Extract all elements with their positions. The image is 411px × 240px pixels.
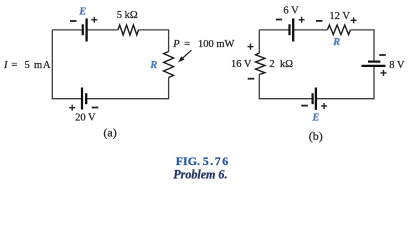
minus sign below 16V bbox=[248, 78, 255, 80]
plus sign left of 20V battery bbox=[69, 107, 75, 109]
wire: (a) top segment battery E to 5k resistor bbox=[87, 29, 118, 31]
svg-text:5 kΩ: 5 kΩ bbox=[117, 10, 138, 21]
svg-text:12 V: 12 V bbox=[329, 11, 350, 22]
battery E (a top): short negative plate bbox=[82, 24, 84, 35]
arrow from P label to resistor R bbox=[181, 50, 192, 60]
wire: (b) right wire below 8V battery, bottom wire to E battery bbox=[316, 67, 374, 99]
wire: (b) top-left segment to 6V battery bbox=[259, 29, 289, 31]
svg-text:2kΩ: 2kΩ bbox=[269, 59, 293, 70]
plus sign right of E battery (b) bbox=[321, 105, 327, 107]
wire: (a) top-left segment to battery E bbox=[52, 29, 82, 31]
svg-text:20 V: 20 V bbox=[75, 113, 96, 124]
wire: (a) top-right segment and right wire down to R bbox=[139, 30, 169, 52]
svg-text:Problem 6.: Problem 6. bbox=[173, 167, 227, 181]
svg-text:E: E bbox=[311, 113, 319, 124]
svg-text:P=100 mW: P=100 mW bbox=[172, 39, 234, 50]
battery 8 V (b right): short negative plate (top) bbox=[368, 60, 380, 62]
battery E (a top): tall positive plate bbox=[85, 18, 87, 41]
wire: (b) top-right segment, right wire down to 8V battery bbox=[351, 30, 375, 61]
wire: (a) bottom-left segment and left wire up bbox=[52, 30, 81, 99]
plus sign above 16V bbox=[248, 46, 254, 48]
minus sign above 8V battery bbox=[379, 54, 386, 56]
battery 20 V (a bottom): tall positive plate bbox=[81, 88, 83, 110]
svg-text:16 V: 16 V bbox=[231, 59, 252, 70]
resistor R (a right side) bbox=[164, 52, 174, 78]
minus sign right of 20V battery bbox=[92, 107, 99, 109]
battery E (b bottom): short negative plate bbox=[312, 93, 314, 104]
svg-text:E: E bbox=[78, 7, 86, 18]
resistor 5 kOhm (a top) bbox=[118, 25, 139, 35]
minus sign left of E battery (b) bbox=[301, 105, 308, 107]
battery E (b bottom): tall positive plate bbox=[315, 88, 317, 110]
wire: (a) right wire below R, bottom wire to 20V battery bbox=[87, 78, 169, 99]
wire: (b) bottom-left segment, left wire up to 16V resistor bbox=[259, 75, 312, 99]
battery 20 V (a bottom): short negative plate bbox=[85, 93, 87, 104]
plus sign below 8V battery bbox=[381, 72, 387, 74]
svg-text:(b): (b) bbox=[309, 129, 323, 143]
svg-text:FIG.5.76: FIG.5.76 bbox=[176, 154, 229, 168]
wire: (b) left wire above 16V resistor bbox=[258, 30, 260, 53]
battery 6 V (b top): tall positive plate bbox=[292, 18, 294, 41]
resistor 2 kOhm / 16 V (b left side) bbox=[256, 53, 265, 75]
svg-text:I=5 mA: I=5 mA bbox=[3, 60, 51, 71]
battery 6 V (b top): short negative plate bbox=[288, 24, 290, 35]
battery 8 V (b right): long positive plate (bottom) bbox=[362, 65, 386, 67]
resistor R 12 V (b top) bbox=[328, 25, 351, 35]
plus sign right of E battery (a) bbox=[91, 19, 97, 21]
svg-text:R: R bbox=[332, 37, 340, 48]
plus sign right of 6V battery bbox=[299, 19, 305, 21]
wire: (b) top segment 6V battery to 12V resistor bbox=[294, 29, 328, 31]
minus sign left of E battery (a) bbox=[70, 20, 77, 22]
svg-text:R: R bbox=[149, 60, 157, 71]
svg-text:6 V: 6 V bbox=[283, 6, 299, 17]
minus sign left of 12V resistor bbox=[316, 20, 322, 22]
svg-text:8 V: 8 V bbox=[389, 60, 405, 71]
svg-text:(a): (a) bbox=[103, 126, 116, 140]
plus sign right of 12V resistor bbox=[351, 19, 357, 21]
minus sign left of 6V battery bbox=[276, 19, 282, 21]
